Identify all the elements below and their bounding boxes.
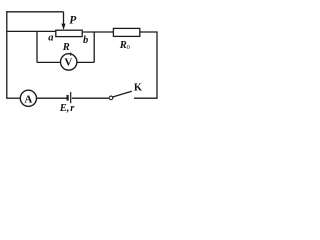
- wire voltmeter row left: [37, 61, 61, 63]
- wire top horizontal: [6, 11, 63, 13]
- svg-text:A: A: [24, 93, 32, 105]
- resistor R0 body: [113, 28, 139, 36]
- wire switch-to-right segment: [134, 97, 158, 99]
- svg-text:E,: E,: [59, 103, 70, 114]
- switch lever: [113, 91, 132, 97]
- wire battery-to-switch segment: [72, 97, 109, 99]
- svg-text:b: b: [83, 35, 88, 46]
- svg-text:V: V: [64, 57, 72, 69]
- voltmeter top tick: [70, 53, 72, 56]
- wire voltmeter row right: [77, 61, 94, 63]
- wire left vertical: [6, 11, 8, 98]
- wire R0 right lead: [140, 31, 157, 33]
- wire voltmeter branch vertical: [36, 31, 38, 62]
- svg-text:P: P: [69, 14, 77, 26]
- wire junction-to-voltmeter vertical: [93, 32, 95, 62]
- slider arrowhead P: [61, 24, 65, 30]
- ammeter A circle: [20, 90, 36, 106]
- battery short plate: [66, 95, 68, 101]
- wire ammeter-to-battery segment: [37, 97, 67, 99]
- switch pivot circle: [109, 96, 113, 100]
- svg-text:K: K: [134, 82, 143, 93]
- wire right vertical: [156, 31, 158, 98]
- svg-text:R: R: [62, 42, 70, 53]
- wire bottom left segment: [6, 97, 20, 99]
- rheostat R body: [56, 30, 82, 36]
- wire a-row horizontal: [6, 30, 56, 32]
- svg-text:a: a: [48, 33, 53, 44]
- svg-text:0: 0: [127, 44, 130, 51]
- wire slider arrow stem: [63, 12, 65, 25]
- battery long plate: [70, 92, 72, 103]
- wire b-row horizontal: [82, 31, 113, 33]
- voltmeter V circle: [60, 54, 76, 70]
